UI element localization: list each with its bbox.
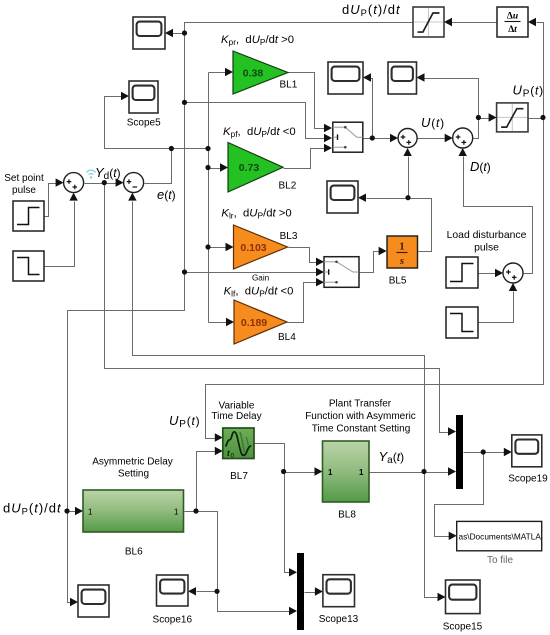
svg-text:BL5: BL5: [389, 276, 407, 287]
svg-text:Time Delay: Time Delay: [211, 411, 261, 422]
svg-text:1: 1: [88, 508, 93, 517]
svg-text:BL6: BL6: [125, 547, 143, 558]
svg-text:t: t: [227, 449, 230, 458]
svg-text:0.38: 0.38: [243, 68, 264, 80]
svg-text:Asymmetric Delay: Asymmetric Delay: [92, 457, 173, 468]
svg-text:Set point: Set point: [4, 173, 44, 184]
svg-text:dUP(t)/dt: dUP(t)/dt: [342, 2, 401, 18]
svg-text:Function with Asymmeric: Function with Asymmeric: [305, 411, 416, 422]
svg-text:1: 1: [399, 241, 405, 253]
svg-text:Variable: Variable: [219, 401, 255, 412]
svg-text:s: s: [399, 255, 404, 267]
svg-text:Gain: Gain: [252, 274, 270, 283]
svg-text:1: 1: [174, 508, 179, 517]
svg-text:BL3: BL3: [280, 231, 298, 242]
svg-text:Scope19: Scope19: [508, 474, 548, 485]
svg-text:Scope15: Scope15: [443, 622, 483, 633]
svg-text:Δu: Δu: [507, 12, 518, 22]
svg-text:e(t): e(t): [157, 187, 176, 202]
svg-text:dUP(t)/dt: dUP(t)/dt: [3, 501, 62, 517]
svg-text:To file: To file: [487, 555, 514, 566]
svg-text:1: 1: [328, 468, 333, 477]
svg-text:D(t): D(t): [470, 159, 491, 174]
svg-text:U(t): U(t): [421, 115, 445, 130]
svg-text:as\Documents\MATLA: as\Documents\MATLA: [459, 532, 542, 542]
svg-text:BL1: BL1: [280, 80, 298, 91]
svg-text:BL7: BL7: [230, 471, 248, 482]
svg-text:Load disturbance: Load disturbance: [447, 230, 527, 241]
svg-text:Scope16: Scope16: [153, 615, 193, 626]
svg-text:BL4: BL4: [278, 332, 296, 343]
svg-text:Scope13: Scope13: [319, 614, 359, 625]
svg-text:0.189: 0.189: [241, 317, 267, 329]
svg-text:Time Constant Setting: Time Constant Setting: [312, 424, 411, 435]
svg-text:pulse: pulse: [474, 243, 499, 254]
svg-text:Plant Transfer: Plant Transfer: [329, 399, 392, 410]
svg-text:pulse: pulse: [12, 185, 36, 196]
svg-text:1: 1: [359, 468, 364, 477]
svg-text:Scope5: Scope5: [127, 118, 161, 129]
svg-text:Δt: Δt: [508, 25, 517, 35]
svg-text:Setting: Setting: [118, 469, 149, 480]
svg-text:BL8: BL8: [338, 510, 356, 521]
svg-text:0.73: 0.73: [239, 162, 260, 174]
svg-text:BL2: BL2: [279, 181, 297, 192]
svg-text:0.103: 0.103: [240, 242, 266, 254]
